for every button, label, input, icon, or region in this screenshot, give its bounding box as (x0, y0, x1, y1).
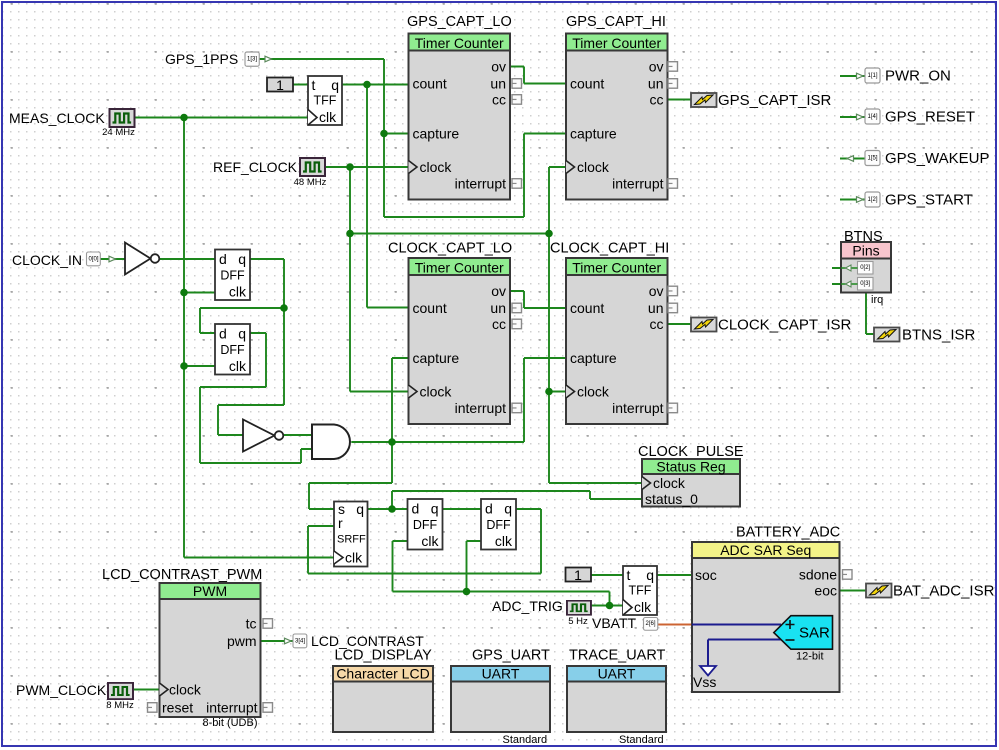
svg-text:Standard: Standard (503, 734, 548, 746)
svg-text:1: 1 (574, 567, 582, 583)
svg-text:3[4]: 3[4] (295, 639, 305, 645)
svg-text:clock: clock (653, 475, 686, 491)
svg-text:8-bit (UDB): 8-bit (UDB) (202, 717, 257, 729)
svg-text:CLOCK_IN: CLOCK_IN (12, 252, 82, 268)
svg-text:q: q (356, 501, 364, 517)
svg-text:Vss: Vss (693, 674, 716, 690)
svg-text:GPS_RESET: GPS_RESET (885, 109, 975, 126)
svg-text:ADC_TRIG: ADC_TRIG (492, 598, 563, 614)
svg-text:CLOCK_CAPT_HI: CLOCK_CAPT_HI (550, 241, 669, 257)
svg-text:BTNS_ISR: BTNS_ISR (902, 327, 976, 344)
svg-text:UART: UART (482, 666, 520, 682)
svg-text:REF_CLOCK: REF_CLOCK (213, 159, 298, 175)
svg-text:0[3]: 0[3] (860, 281, 870, 287)
svg-text:48 MHz: 48 MHz (294, 177, 327, 188)
svg-text:0[2]: 0[2] (860, 265, 870, 271)
svg-text:eoc: eoc (814, 583, 837, 599)
svg-text:ADC SAR Seq: ADC SAR Seq (720, 542, 811, 558)
svg-text:CLOCK_CAPT_LO: CLOCK_CAPT_LO (388, 241, 512, 257)
svg-text:SRFF: SRFF (337, 534, 366, 546)
svg-text:soc: soc (695, 567, 717, 583)
svg-text:GPS_CAPT_HI: GPS_CAPT_HI (566, 14, 666, 30)
svg-text:24 MHz: 24 MHz (102, 127, 135, 138)
svg-text:5 Hz: 5 Hz (568, 616, 588, 627)
svg-text:Pins: Pins (852, 243, 879, 259)
svg-text:GPS_START: GPS_START (885, 192, 973, 209)
svg-text:1[3]: 1[3] (247, 57, 257, 63)
svg-text:sdone: sdone (799, 567, 837, 583)
svg-text:interrupt: interrupt (206, 700, 257, 716)
svg-text:PWM: PWM (193, 583, 227, 599)
svg-text:GPS_CAPT_ISR: GPS_CAPT_ISR (718, 92, 832, 109)
svg-text:irq: irq (871, 294, 883, 306)
svg-text:LCD_DISPLAY: LCD_DISPLAY (335, 648, 433, 664)
svg-text:1[2]: 1[2] (867, 197, 877, 203)
svg-text:status_0: status_0 (645, 491, 698, 507)
svg-text:r: r (338, 515, 343, 531)
svg-text:PWR_ON: PWR_ON (885, 68, 951, 85)
svg-text:GPS_UART: GPS_UART (472, 648, 550, 664)
svg-text:BAT_ADC_ISR: BAT_ADC_ISR (893, 583, 995, 600)
svg-text:1[4]: 1[4] (867, 114, 877, 120)
svg-text:CLOCK_CAPT_ISR: CLOCK_CAPT_ISR (718, 317, 852, 334)
svg-text:1: 1 (276, 77, 284, 93)
svg-text:1[5]: 1[5] (867, 156, 877, 162)
svg-text:clk: clk (345, 550, 363, 566)
svg-text:12-bit: 12-bit (796, 651, 824, 663)
svg-text:clock: clock (169, 682, 202, 698)
svg-text:VBATT: VBATT (592, 615, 637, 631)
svg-text:TRACE_UART: TRACE_UART (569, 648, 666, 664)
svg-text:Status Reg: Status Reg (656, 459, 725, 475)
svg-text:pwm: pwm (227, 633, 257, 649)
svg-text:1[1]: 1[1] (867, 73, 877, 79)
svg-text:tc: tc (246, 616, 257, 632)
svg-text:PWM_CLOCK: PWM_CLOCK (16, 682, 107, 698)
svg-text:SAR: SAR (799, 625, 830, 642)
svg-text:UART: UART (598, 666, 636, 682)
svg-text:2[6]: 2[6] (645, 621, 655, 627)
svg-text:8 MHz: 8 MHz (106, 700, 134, 711)
svg-text:Character LCD: Character LCD (336, 666, 429, 682)
svg-text:0[0]: 0[0] (88, 257, 98, 263)
svg-text:BATTERY_ADC: BATTERY_ADC (736, 525, 840, 541)
svg-text:Standard: Standard (619, 734, 664, 746)
svg-text:GPS_1PPS: GPS_1PPS (165, 51, 238, 67)
svg-text:GPS_WAKEUP: GPS_WAKEUP (885, 150, 989, 167)
svg-text:MEAS_CLOCK: MEAS_CLOCK (9, 110, 105, 126)
svg-text:GPS_CAPT_LO: GPS_CAPT_LO (407, 14, 512, 30)
svg-text:LCD_CONTRAST_PWM: LCD_CONTRAST_PWM (102, 567, 262, 583)
svg-text:reset: reset (162, 700, 193, 716)
